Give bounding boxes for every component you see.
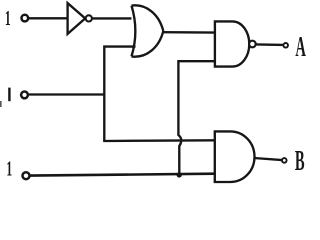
- wire: NAND output: [256, 43, 284, 46]
- output terminal B: [282, 158, 287, 163]
- wire: AND output: [254, 158, 282, 160]
- svg-text:A: A: [295, 31, 306, 63]
- input terminal (bottom): [23, 172, 30, 179]
- wire: inverter to OR gate: [92, 17, 135, 19]
- output label B: [295, 145, 305, 176]
- inverter U1 bubble: [86, 15, 92, 21]
- wire: OR output to NAND input: [163, 31, 216, 34]
- junction dot: [177, 172, 182, 177]
- wire: NAND bottom input from net: [178, 60, 216, 62]
- input label 1 (top): [5, 7, 11, 31]
- svg-text:1: 1: [6, 157, 12, 181]
- wire: middle input to node: [29, 93, 105, 95]
- output terminal A: [283, 43, 288, 48]
- input terminal (top): [22, 15, 29, 22]
- wire: vertical branch up to OR, down to AND: [104, 47, 135, 142]
- AND gate U4: [215, 131, 255, 182]
- input label 1 (bottom): [6, 157, 12, 181]
- input label 1 (middle): [8, 88, 10, 102]
- wire: vertical from NAND input down with hop over crossing: [178, 60, 181, 175]
- wire: top input to inverter: [29, 17, 68, 19]
- svg-text:1: 1: [5, 7, 11, 31]
- input terminal (middle): [21, 92, 28, 99]
- wire: bottom input to AND gate: [30, 174, 215, 176]
- output label A: [295, 31, 306, 63]
- inverter U1 triangle: [68, 3, 86, 34]
- wire: horizontal to AND top input: [103, 139, 215, 142]
- stray scan tick at left edge: [0, 101, 2, 107]
- svg-text:B: B: [295, 145, 305, 176]
- NAND bubble: [249, 41, 256, 48]
- OR gate U2: [132, 5, 164, 56]
- NAND gate U3: [215, 21, 249, 66]
